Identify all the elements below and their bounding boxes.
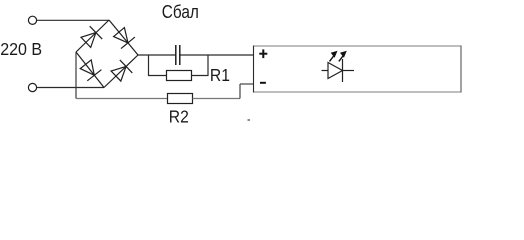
- plus terminal mark: [259, 49, 267, 58]
- wire: top AC input to bridge top vertex: [37, 19, 109, 21]
- diode: bridge upper-left (anode left vertex, cathode top vertex): [81, 26, 102, 47]
- wire: R2 right lead along bottom rail: [193, 98, 241, 100]
- wire: bridge right vertex (DC+) to capacitor left plate: [138, 54, 175, 56]
- svg-text:R2: R2: [169, 107, 189, 127]
- diode: bridge lower-right (anode bottom vertex, cathode right vertex): [111, 60, 132, 81]
- terminal: top AC input: [28, 16, 36, 24]
- LED: anode lead wire: [322, 70, 329, 72]
- minus terminal mark: [260, 82, 266, 84]
- svg-text:R1: R1: [210, 65, 230, 85]
- wire: bottom rail from drop to R2 left lead: [76, 98, 168, 100]
- wire: R1 right lead and vertical up to + line: [192, 55, 209, 76]
- diode: bridge upper-right (anode top vertex, cathode right vertex): [114, 28, 135, 49]
- wire: minus stub into LED module: [240, 83, 254, 85]
- LED: triangle: [328, 63, 343, 79]
- bridge edge: bottom vertex to right vertex: [104, 55, 138, 88]
- bridge edge: left vertex to top vertex: [76, 20, 109, 52]
- svg-text:Сбал: Сбал: [162, 2, 199, 23]
- terminal: bottom AC input: [28, 83, 36, 91]
- wire: bottom AC input to bridge bottom vertex: [37, 87, 104, 89]
- wire: vertical riser to minus stub: [239, 84, 241, 99]
- wire: R1 branch left vertical drop: [149, 55, 167, 76]
- bridge edge: left vertex to bottom vertex: [76, 52, 104, 88]
- svg-text:220 В: 220 В: [0, 39, 42, 59]
- LED: cathode bar: [342, 59, 344, 82]
- LED module box: [254, 46, 462, 93]
- LED: emission arrow 2: [339, 51, 347, 62]
- speck artifact below box: [248, 119, 250, 120]
- LED: emission arrow 1: [330, 51, 338, 62]
- capacitor Сбал: right plate: [179, 45, 181, 65]
- LED: cathode lead wire: [343, 70, 355, 72]
- capacitor Сбал: left plate: [175, 45, 177, 65]
- resistor R1 body: [167, 71, 192, 81]
- diode: bridge lower-left (anode left vertex, cathode bottom vertex): [80, 60, 101, 81]
- wire: bridge left vertex (DC-) vertical drop: [75, 52, 77, 99]
- bridge edge: top vertex to right vertex: [109, 20, 138, 55]
- resistor R2 body: [168, 94, 193, 104]
- wire: capacitor right plate to LED module + terminal: [180, 54, 253, 56]
